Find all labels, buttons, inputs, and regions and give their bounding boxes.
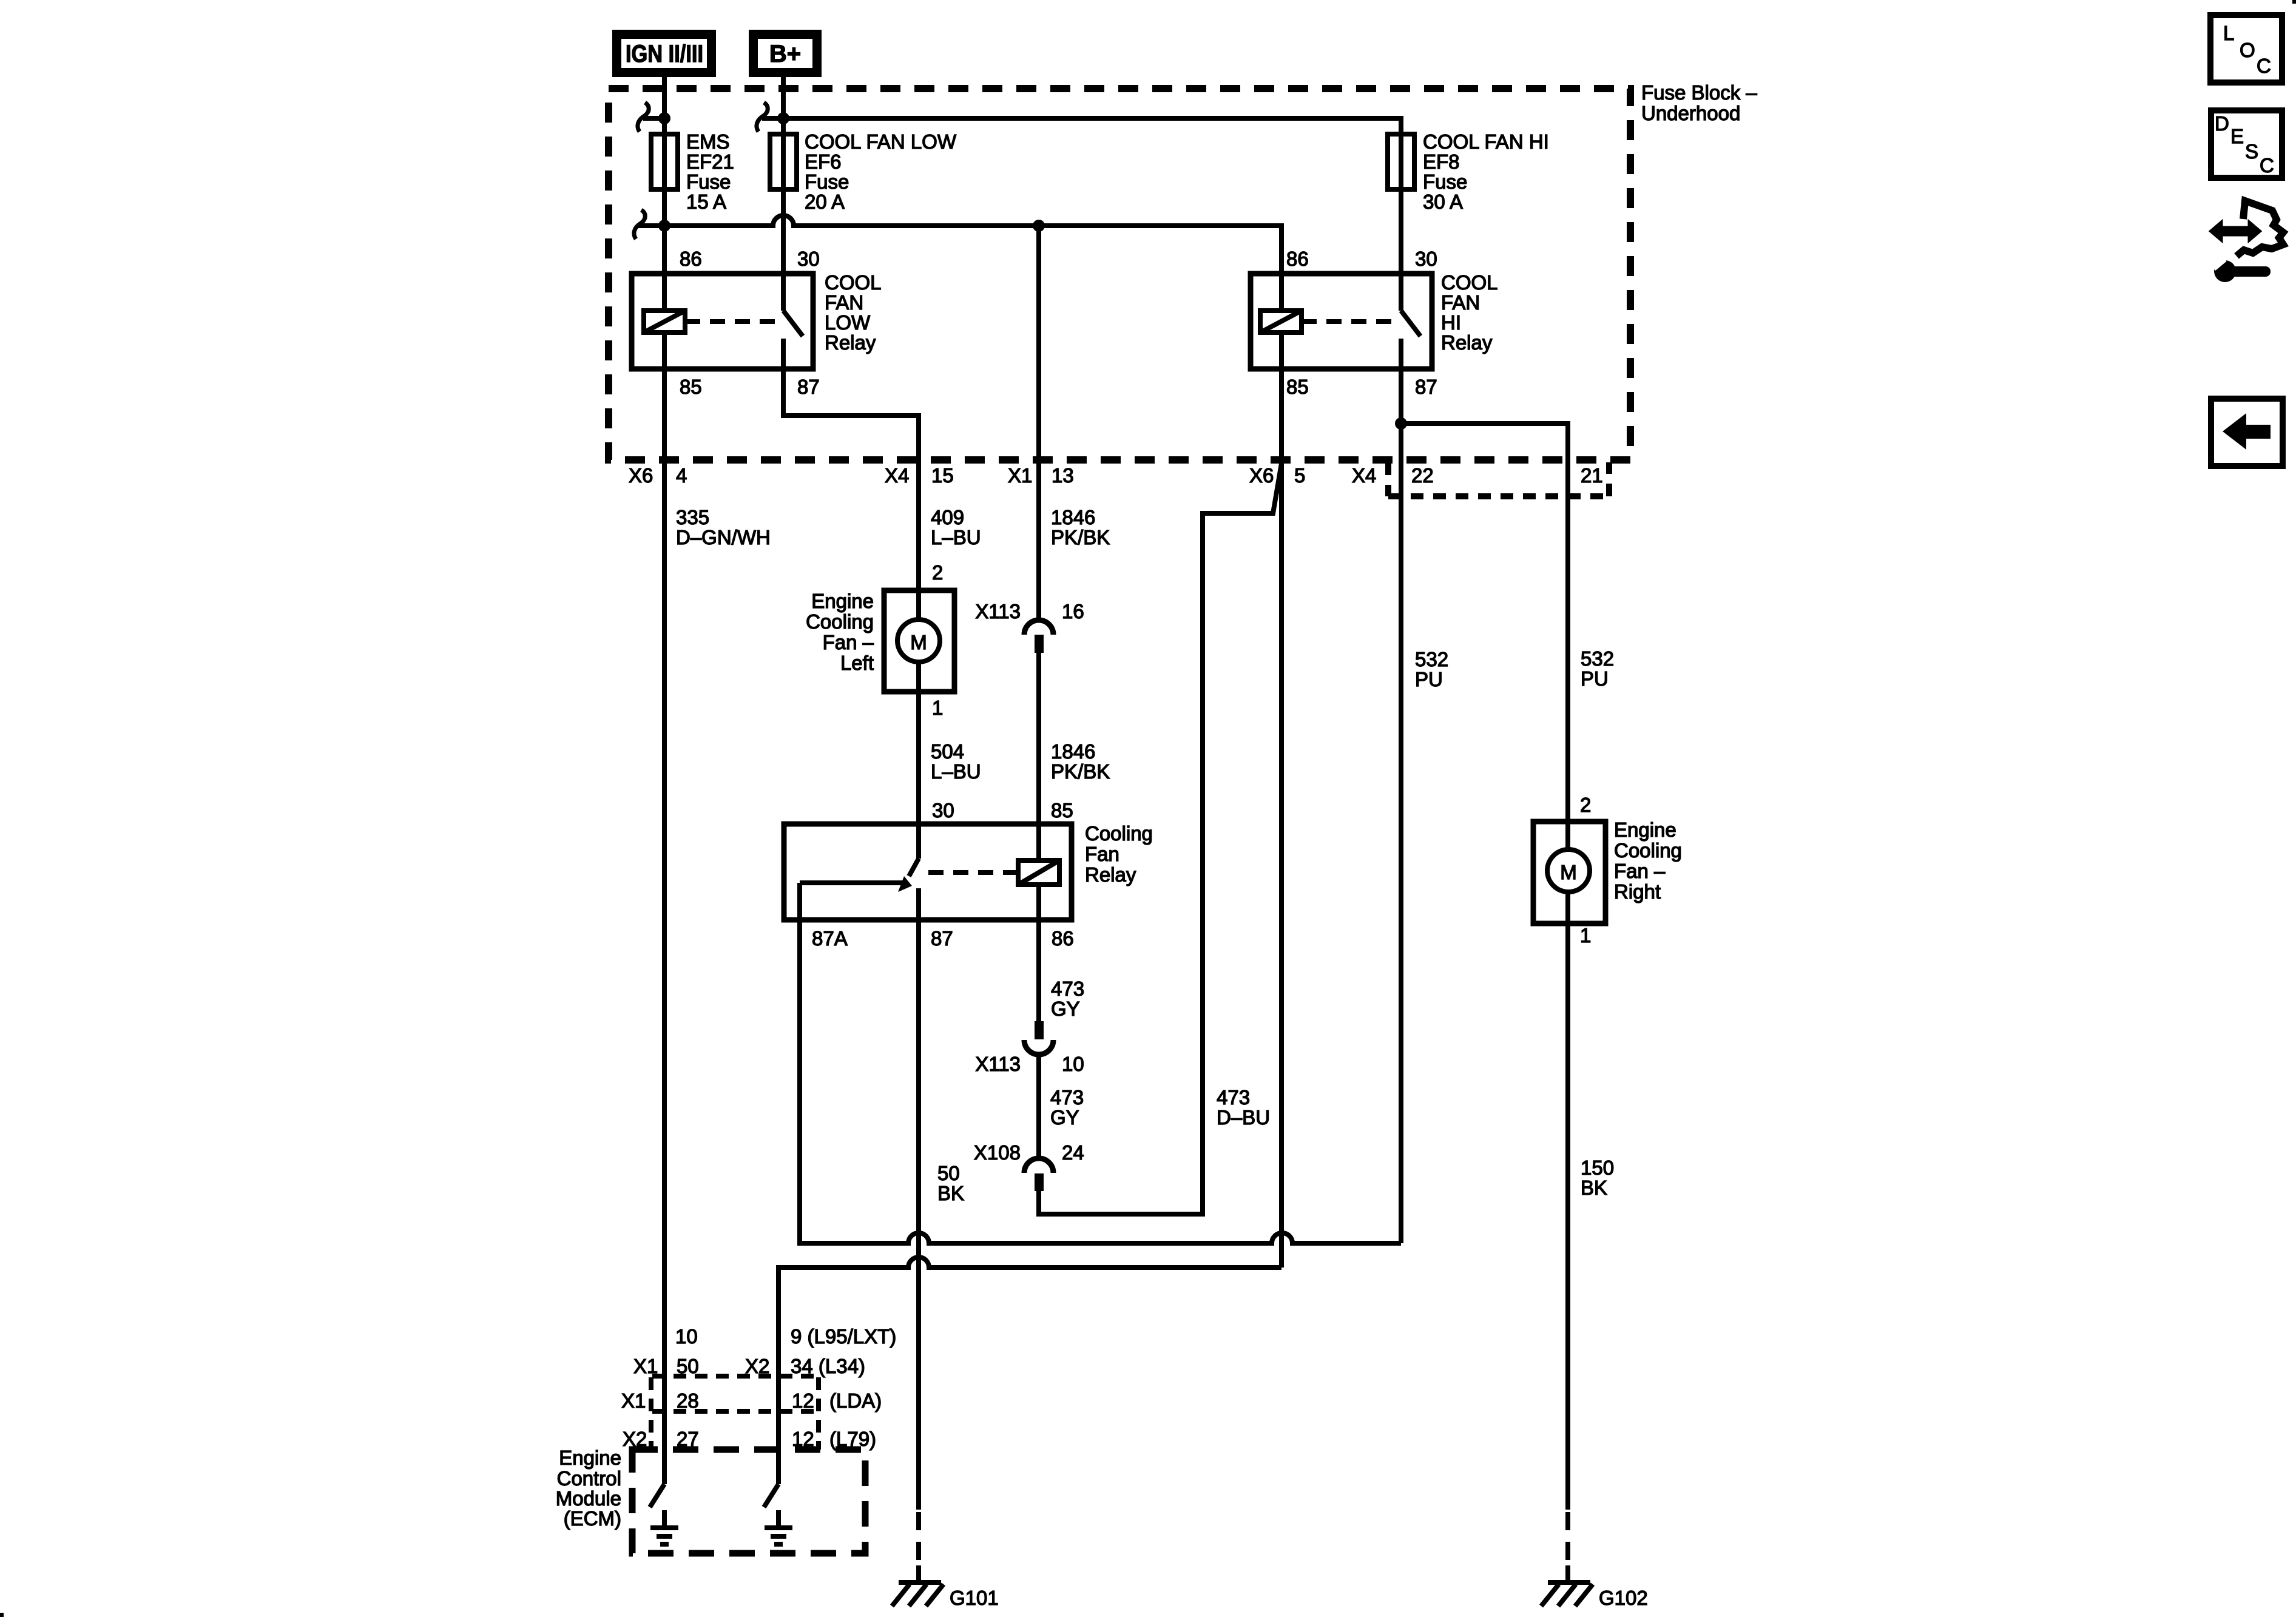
tick: hook to EMS wire [643, 116, 664, 121]
svg-text:Underhood: Underhood [1641, 102, 1740, 124]
svg-text:30: 30 [932, 799, 954, 822]
svg-text:87A: 87A [812, 927, 848, 950]
X4 connector dashed sub-box (pins 22 / 21) [1388, 462, 1609, 496]
svg-text:C: C [2260, 154, 2274, 177]
power feed box IGN II/III [612, 30, 716, 77]
ECM connector dashed row divider 1 [652, 1374, 818, 1379]
svg-text:Fuse: Fuse [1423, 170, 1467, 193]
wire label 150 BK [1581, 1156, 1614, 1199]
wire label 504 L-BU [931, 740, 981, 783]
motor Engine Cooling Fan Right [1533, 794, 1682, 947]
wire 50 BK dashed section [916, 1512, 921, 1565]
svg-text:Engine: Engine [559, 1447, 621, 1469]
svg-text:1: 1 [1580, 924, 1591, 947]
wire line A: 87A to X4-22 riser [800, 883, 1401, 1243]
wire: X108-24 down, right, up as 473 D-BU to X6-5 diagonal [1039, 460, 1282, 1214]
svg-text:X113: X113 [975, 600, 1021, 623]
svg-text:30: 30 [1415, 248, 1437, 270]
svg-text:Left: Left [840, 652, 874, 674]
svg-text:30: 30 [797, 248, 820, 270]
svg-text:2: 2 [1580, 794, 1591, 816]
svg-text:1846: 1846 [1051, 506, 1095, 528]
wire 150 BK from right fan to G102 [1565, 893, 1570, 1510]
svg-text:Right: Right [1614, 880, 1661, 903]
ECM low-fan driver switch [650, 1484, 664, 1507]
relay Cooling Fan Relay pin 87 wire 50 BK down to G101 [916, 888, 921, 1510]
wire: 1846 PK/BK to cooling fan relay coil 85 [1036, 653, 1041, 860]
svg-text:1: 1 [932, 697, 943, 719]
wire label 532 PU right [1581, 647, 1614, 690]
svg-text:COOL: COOL [825, 271, 882, 294]
svg-text:Relay: Relay [1441, 331, 1493, 354]
relay COOL FAN HI coil-to-contact dashed link [1302, 319, 1396, 324]
hook terminal at B+ wire top [757, 103, 768, 132]
svg-text:LOW: LOW [825, 311, 871, 334]
svg-text:85: 85 [680, 376, 702, 398]
junction dot EMS bus at 1846 wire [1033, 220, 1045, 232]
wire 473 GY between X113-10 and X108-24 [1036, 1055, 1041, 1158]
svg-text:409: 409 [931, 506, 964, 528]
icon connector-repair (double arrow, shell outline, wrench) [2210, 201, 2283, 282]
svg-text:HI: HI [1441, 311, 1461, 334]
page corner mark bottom left [0, 1613, 4, 1617]
relay COOL FAN HI coil [1260, 311, 1302, 333]
ECM pin labels row 1 [633, 1325, 896, 1377]
svg-text:X108: X108 [974, 1141, 1021, 1164]
svg-text:X4: X4 [885, 464, 909, 487]
junction dot EMS wire top [658, 112, 670, 124]
relay Cooling Fan Relay box [784, 799, 1153, 950]
svg-text:X113: X113 [975, 1053, 1021, 1075]
svg-text:M: M [1560, 861, 1577, 883]
svg-text:D–BU: D–BU [1217, 1106, 1270, 1129]
relay COOL FAN LOW coil [644, 311, 685, 333]
svg-text:BK: BK [1581, 1176, 1607, 1199]
svg-text:PK/BK: PK/BK [1051, 526, 1110, 549]
svg-text:(LDA): (LDA) [829, 1389, 882, 1412]
svg-text:X6: X6 [629, 464, 653, 487]
svg-text:PK/BK: PK/BK [1051, 760, 1110, 783]
junction dot EMS bus at 335 wire [658, 220, 670, 232]
svg-text:C: C [2257, 55, 2271, 77]
page corner mark top right [2292, 0, 2296, 4]
svg-text:2: 2 [932, 561, 943, 584]
svg-text:22: 22 [1411, 464, 1434, 487]
ECM dashed box [556, 1447, 865, 1553]
relay COOL FAN HI pin 87 stub to junction [1399, 339, 1403, 424]
svg-text:Cooling: Cooling [1085, 822, 1153, 845]
svg-text:Cooling: Cooling [806, 610, 874, 633]
icon box DESC [2211, 110, 2282, 178]
svg-text:50: 50 [937, 1162, 960, 1184]
svg-text:S: S [2245, 140, 2258, 163]
svg-text:Fan: Fan [1085, 843, 1119, 865]
fuse block underhood dashed border [609, 81, 1757, 460]
svg-text:15: 15 [931, 464, 954, 487]
svg-text:86: 86 [680, 248, 702, 270]
svg-text:Control: Control [557, 1467, 621, 1490]
svg-text:M: M [910, 631, 927, 653]
relay COOL FAN LOW pin 87 stub [783, 339, 919, 859]
svg-text:Cooling: Cooling [1614, 839, 1682, 862]
svg-text:85: 85 [1051, 799, 1073, 822]
svg-text:EF8: EF8 [1423, 150, 1460, 173]
inline connector X113 pin 16 [975, 600, 1084, 653]
wire label 473 D-BU [1217, 1086, 1270, 1129]
svg-text:D–GN/WH: D–GN/WH [676, 526, 771, 549]
icon box LOC [2210, 15, 2282, 83]
svg-text:28: 28 [677, 1389, 699, 1412]
svg-text:21: 21 [1581, 464, 1603, 487]
svg-text:4: 4 [676, 464, 687, 487]
svg-text:Module: Module [556, 1487, 621, 1510]
relay COOL FAN HI contact blade [1401, 311, 1420, 336]
ECM pin labels row 3 [623, 1428, 876, 1450]
ECM high-fan driver switch [764, 1484, 778, 1507]
icon box back arrow [2211, 399, 2283, 466]
svg-text:EMS: EMS [686, 130, 730, 153]
hook terminal at EMS wire top [638, 103, 649, 132]
svg-text:10: 10 [1062, 1053, 1084, 1075]
svg-text:E: E [2230, 125, 2244, 147]
relay Cooling Fan Relay coil-to-contact dashed link [928, 870, 1010, 875]
svg-text:IGN II/III: IGN II/III [626, 41, 703, 67]
svg-text:473: 473 [1051, 977, 1084, 1000]
svg-text:X1: X1 [1008, 464, 1032, 487]
wire label 532 PU left [1415, 648, 1448, 690]
svg-text:1846: 1846 [1051, 740, 1095, 763]
svg-text:Relay: Relay [1085, 863, 1136, 886]
svg-text:24: 24 [1062, 1141, 1084, 1164]
svg-text:86: 86 [1286, 248, 1309, 270]
wire: EMS fuse output bus (hop over EF6 wire, feeds X1-13 and HI relay 86) [638, 215, 1281, 311]
svg-text:86: 86 [1052, 927, 1074, 950]
ECM connector dashed row divider 2 [652, 1409, 818, 1414]
svg-text:150: 150 [1581, 1156, 1614, 1179]
svg-text:473: 473 [1217, 1086, 1250, 1109]
svg-text:Relay: Relay [825, 331, 876, 354]
ground G101 [892, 1582, 999, 1609]
wire label 409 L-BU [931, 506, 981, 549]
ground G102 [1541, 1582, 1648, 1609]
svg-text:EF6: EF6 [805, 150, 842, 173]
svg-text:X6: X6 [1249, 464, 1274, 487]
connector pin labels along fuse block border [629, 464, 1603, 487]
wire: B+ feed down through EF6 fuse to LOW relay pin 30 [781, 77, 786, 311]
svg-text:504: 504 [931, 740, 964, 763]
relay Cooling Fan Relay coil [1018, 860, 1059, 885]
svg-text:GY: GY [1051, 998, 1080, 1020]
wire label 473 GY lower [1050, 1086, 1084, 1129]
svg-text:Fan –: Fan – [823, 631, 874, 653]
svg-text:9 (L95/LXT): 9 (L95/LXT) [791, 1325, 896, 1348]
svg-text:12: 12 [792, 1389, 814, 1412]
svg-text:85: 85 [1286, 376, 1309, 398]
hook terminal at EMS output bus [634, 210, 645, 239]
svg-text:FAN: FAN [1441, 291, 1480, 314]
svg-text:335: 335 [676, 506, 709, 528]
wire: X1-13 1846 PK/BK down to X113-16 [1036, 226, 1041, 620]
svg-text:5: 5 [1294, 464, 1305, 487]
svg-text:FAN: FAN [825, 291, 863, 314]
svg-text:87: 87 [797, 376, 820, 398]
svg-text:BK: BK [937, 1182, 964, 1204]
wire label 1846 PK/BK lower [1051, 740, 1110, 783]
power feed box B+ [749, 30, 822, 77]
svg-text:GY: GY [1050, 1106, 1079, 1129]
relay Cooling Fan Relay 87A arm [800, 880, 904, 885]
svg-text:30 A: 30 A [1423, 191, 1463, 213]
svg-text:L: L [2223, 22, 2234, 44]
svg-text:Fan –: Fan – [1614, 860, 1666, 882]
tick: hook to B+ wire [762, 116, 783, 121]
wire line B: ECM X2 output to X6-5 riser [778, 1257, 1281, 1484]
inline connector X113 pin 10 [975, 1021, 1084, 1075]
ECM pin labels row 2 [621, 1389, 882, 1412]
relay COOL FAN LOW box [632, 248, 882, 398]
wire label 473 GY upper [1051, 977, 1084, 1020]
motor Engine Cooling Fan Left [806, 561, 954, 719]
svg-text:15 A: 15 A [686, 191, 726, 213]
svg-text:Fuse: Fuse [686, 170, 731, 193]
relay COOL FAN HI pin 85 wire to X6-5 and down to line B [1279, 331, 1284, 1268]
svg-text:G102: G102 [1599, 1587, 1648, 1609]
svg-text:10: 10 [675, 1325, 698, 1348]
svg-text:473: 473 [1050, 1086, 1084, 1109]
svg-text:16: 16 [1062, 600, 1084, 623]
wire: B+ branch to EF8 fuse and HI relay pin 30 [783, 118, 1401, 311]
svg-text:COOL FAN HI: COOL FAN HI [1423, 130, 1549, 153]
svg-text:87: 87 [1415, 376, 1437, 398]
relay COOL FAN HI box [1251, 248, 1498, 398]
junction dot B+ branch [777, 112, 789, 124]
ECM high-fan driver ground [765, 1510, 792, 1544]
svg-text:532: 532 [1415, 648, 1448, 670]
relay COOL FAN LOW contact blade [783, 311, 803, 336]
relay Cooling Fan Relay pin 86 wire 473 GY down [1036, 885, 1041, 1021]
svg-text:Engine: Engine [1614, 819, 1676, 841]
svg-text:COOL: COOL [1441, 271, 1498, 294]
inline connector X108 pin 24 [974, 1141, 1084, 1191]
ECM connector dashed side rails [651, 1377, 819, 1450]
wire: HI 87 straight down X4-22 (532 PU left) joining line A [1399, 424, 1403, 1243]
wire label 1846 PK/BK upper [1051, 506, 1110, 549]
svg-text:G101: G101 [950, 1587, 999, 1609]
svg-text:Fuse Block –: Fuse Block – [1641, 81, 1757, 104]
svg-text:13: 13 [1052, 464, 1074, 487]
svg-text:(ECM): (ECM) [564, 1507, 621, 1530]
wire: HI 87 branch right to X4-21 (532 PU right) [1401, 424, 1568, 849]
svg-text:D: D [2215, 112, 2229, 135]
svg-text:X1: X1 [621, 1389, 646, 1412]
svg-text:532: 532 [1581, 647, 1614, 670]
svg-text:O: O [2240, 39, 2255, 61]
wire label 335 D-GN/WH [676, 506, 771, 549]
svg-text:L–BU: L–BU [931, 760, 981, 783]
svg-text:Fuse: Fuse [805, 170, 849, 193]
svg-text:Engine: Engine [811, 590, 874, 612]
svg-text:20 A: 20 A [805, 191, 845, 213]
svg-text:X4: X4 [1352, 464, 1376, 487]
fuse COOL FAN HI EF8 30A [1388, 130, 1549, 213]
ECM low-fan driver ground [650, 1510, 678, 1544]
svg-text:L–BU: L–BU [931, 526, 981, 549]
junction dot HI 87 [1395, 417, 1407, 430]
wire label 50 BK [937, 1162, 964, 1204]
svg-text:87: 87 [931, 927, 953, 950]
svg-text:B+: B+ [769, 41, 801, 67]
fuse EMS EF21 15A [651, 130, 734, 213]
relay Cooling Fan Relay contact blade with arrow [898, 859, 919, 892]
wire: IGN II/III feed down through EMS fuse to relay coil and ECM (335 D-GN/WH) [662, 77, 667, 1484]
relay COOL FAN LOW coil-to-contact dashed link [685, 319, 778, 324]
svg-text:COOL FAN LOW: COOL FAN LOW [805, 130, 957, 153]
fuse COOL FAN LOW EF6 20A [770, 130, 957, 213]
svg-text:PU: PU [1581, 667, 1609, 690]
svg-text:EF21: EF21 [686, 150, 734, 173]
svg-text:PU: PU [1415, 668, 1443, 690]
